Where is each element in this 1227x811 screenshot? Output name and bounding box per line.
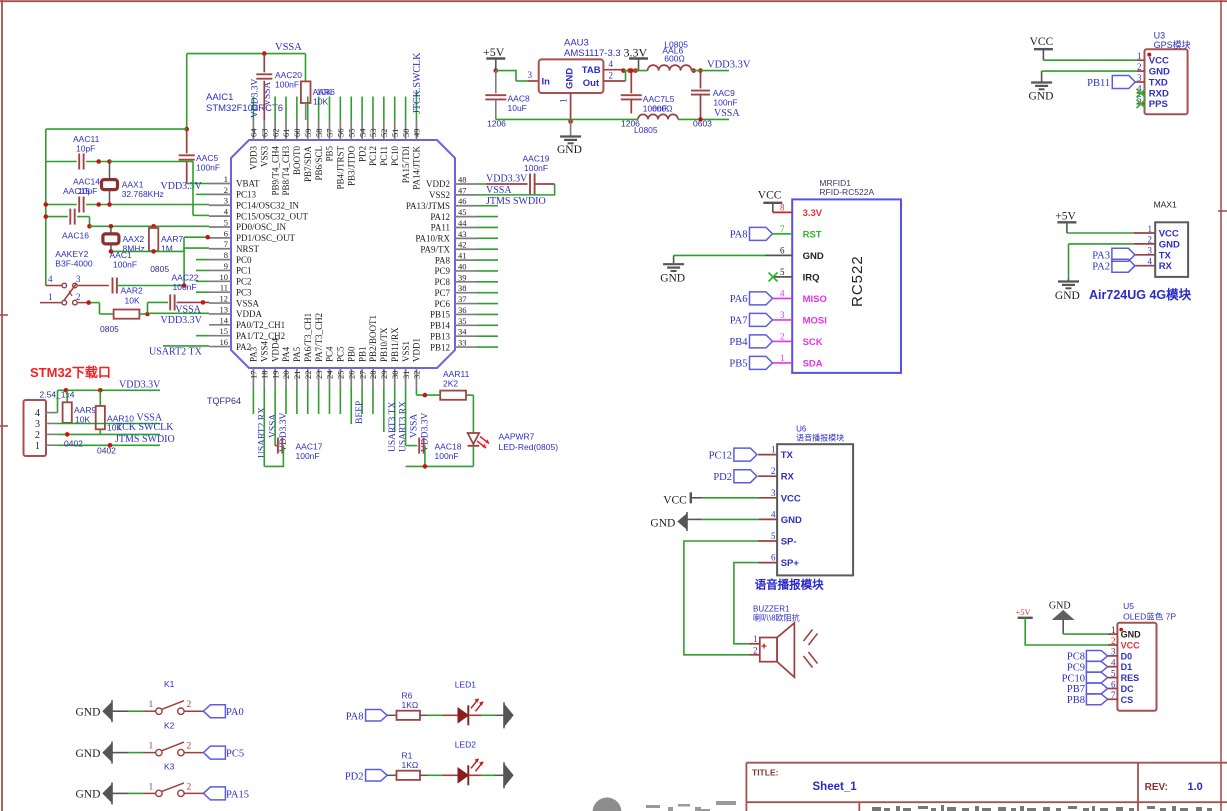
svg-text:GND: GND: [565, 68, 576, 89]
svg-text:50: 50: [401, 129, 411, 138]
svg-text:61: 61: [281, 129, 291, 138]
wire SP- to buzzer pin2: [684, 541, 758, 655]
U6 pin 6 SP+: [758, 562, 777, 564]
MCU pin 7 NRST: [209, 248, 231, 250]
wire VCC to U3 pin1: [1043, 59, 1136, 61]
svg-text:PC5: PC5: [336, 346, 346, 362]
wire pin13 VDDA: [150, 312, 209, 314]
MCU pin 40 PC9: [455, 270, 477, 272]
svg-text:3: 3: [1137, 73, 1142, 83]
svg-text:GND: GND: [76, 789, 101, 801]
MCU pin 6 PD1/OSC_OUT: [209, 237, 231, 239]
MAX1 pin 1 VCC: [1134, 232, 1156, 234]
svg-text:3: 3: [35, 419, 40, 430]
svg-text:GND: GND: [1029, 91, 1054, 103]
svg-text:1: 1: [149, 700, 154, 710]
svg-text:PB5: PB5: [729, 359, 747, 370]
svg-text:VCC: VCC: [758, 190, 782, 202]
svg-text:17: 17: [249, 371, 259, 380]
svg-text:AAC8: AAC8: [508, 94, 530, 104]
MCU pin 39 PC8: [455, 281, 477, 283]
svg-text:VDD1: VDD1: [412, 338, 422, 362]
MCU pin 5 PD0/OSC_IN: [209, 226, 231, 228]
svg-text:2: 2: [187, 782, 192, 792]
wire MAX1 pin2 to GND: [1069, 243, 1134, 245]
svg-text:VDD3: VDD3: [249, 146, 259, 170]
svg-text:PA15: PA15: [226, 789, 249, 800]
svg-text:13: 13: [220, 304, 229, 314]
net flag PC5: [203, 746, 225, 759]
no-connect X IRQ: [769, 273, 778, 282]
svg-text:2: 2: [609, 71, 614, 81]
svg-text:49: 49: [412, 129, 422, 138]
svg-text:VCC: VCC: [1159, 229, 1179, 240]
svg-text:37: 37: [458, 294, 467, 304]
MCU pin 11 PC3: [209, 291, 231, 293]
svg-text:16: 16: [220, 337, 229, 347]
svg-text:PD2: PD2: [357, 146, 367, 162]
svg-text:35: 35: [458, 316, 467, 326]
svg-text:PC4: PC4: [325, 346, 335, 362]
MCU pin 24 PC4: [328, 368, 330, 388]
MCU pin 23 PA7/T3_CH2: [318, 368, 320, 388]
svg-text:VSS2: VSS2: [429, 190, 450, 200]
svg-text:PA10/RX: PA10/RX: [415, 234, 450, 244]
svg-text:53: 53: [368, 129, 378, 138]
MCU pin 45 PA12: [455, 216, 477, 218]
svg-text:喇叭\8欧阻抗: 喇叭\8欧阻抗: [753, 613, 800, 623]
svg-text:PB4/JTRST: PB4/JTRST: [336, 145, 346, 189]
module U6 voice body: [777, 444, 853, 575]
MCU pin 43 PA10/RX: [455, 237, 477, 239]
MCU pin 49 PA14/JTCK: [415, 120, 417, 140]
svg-text:语音播报模块: 语音播报模块: [796, 433, 844, 443]
wire pin46 JTMS: [477, 205, 498, 207]
wire AAC19 to VSSA pin47: [530, 184, 555, 195]
wire GND to K3: [112, 792, 128, 794]
wire pin1 VBAT: [187, 183, 209, 185]
svg-text:4: 4: [1148, 257, 1153, 267]
wire VCC to U6 pin3: [701, 497, 758, 499]
regulator pin1 GND: [570, 93, 572, 119]
svg-text:PB2/BOOT1: PB2/BOOT1: [368, 315, 378, 362]
LED LED1 arrows: [471, 699, 479, 709]
svg-text:PA11: PA11: [431, 223, 450, 233]
MCU pin 58 PB6/SCL: [318, 120, 320, 140]
svg-text:USART2 TX: USART2 TX: [149, 347, 203, 358]
svg-text:GND: GND: [76, 707, 101, 719]
svg-text:JTMS SWDIO: JTMS SWDIO: [115, 434, 175, 445]
U3 pin 2 GND: [1137, 70, 1145, 72]
wire PA7 to RC522: [773, 319, 793, 321]
wire VDD pin32 to AAR11: [415, 388, 417, 395]
svg-text:63: 63: [259, 129, 269, 138]
U3 pin 4 RXD: [1137, 92, 1145, 94]
svg-text:LED1: LED1: [455, 679, 477, 689]
svg-text:PC11: PC11: [379, 146, 389, 166]
svg-text:33: 33: [458, 338, 467, 348]
svg-text:100nF: 100nF: [524, 163, 548, 173]
net flag PA0: [203, 705, 225, 718]
svg-text:600Ω: 600Ω: [652, 104, 673, 114]
svg-text:AAIC1: AAIC1: [206, 92, 233, 103]
svg-text:AAKEY2: AAKEY2: [55, 249, 88, 259]
svg-text:AAC16: AAC16: [62, 231, 89, 241]
svg-text:4: 4: [771, 509, 776, 519]
svg-text:6: 6: [780, 245, 785, 255]
svg-text:AAU3: AAU3: [564, 38, 589, 49]
svg-text:TXD: TXD: [1149, 78, 1168, 89]
MCU pin 51 PC10: [394, 120, 396, 140]
wire VDD rail download: [58, 389, 161, 391]
buzzer sound waves: [804, 630, 813, 642]
MCU pin 28 PB2/BOOT1: [372, 368, 374, 388]
wire P1 pin2 SWDIO: [58, 433, 161, 435]
MCU pin 14 PA0/T2_CH1: [209, 324, 231, 326]
svg-text:VSS4: VSS4: [259, 340, 269, 362]
MCU pin 31 VSS1: [405, 368, 407, 388]
svg-text:30: 30: [390, 371, 400, 380]
RC522 pin5 IRQ stub: [773, 276, 792, 278]
svg-text:TX: TX: [781, 450, 794, 461]
U6 pin 1 TX: [758, 454, 777, 456]
wire pin48 VDD3.3V: [477, 183, 486, 185]
svg-text:PB8/T4_CH3: PB8/T4_CH3: [281, 146, 291, 196]
svg-text:AAC7L5: AAC7L5: [643, 94, 675, 104]
svg-text:1.0: 1.0: [1188, 781, 1203, 793]
svg-text:GND: GND: [1149, 67, 1170, 78]
wire GND to K1: [112, 710, 128, 712]
MCU pin 44 PA11: [455, 226, 477, 228]
MCU pin 17 PA3: [252, 368, 254, 388]
svg-text:PA0: PA0: [226, 707, 244, 718]
wire short stubs pins 2/8/9/10/11/15: [196, 193, 209, 195]
svg-text:GND: GND: [660, 273, 685, 285]
svg-text:PA3: PA3: [1092, 251, 1110, 262]
MCU pin 48 VDD2: [455, 183, 477, 185]
svg-text:GND: GND: [76, 748, 101, 760]
buzzer pin 2: [749, 654, 760, 656]
MCU pin 21 PA5: [296, 368, 298, 388]
svg-text:VDD3.3V: VDD3.3V: [707, 60, 751, 71]
svg-text:27: 27: [357, 371, 367, 380]
MCU pin 55 PB3/JTDO: [350, 120, 352, 140]
wire GND to U5 pin1: [1063, 633, 1108, 635]
svg-text:54: 54: [357, 128, 367, 137]
svg-text:PA14/JTCK: PA14/JTCK: [412, 146, 422, 190]
junction VSSA/AAC20: [262, 51, 267, 56]
MCU pin 9 PC1: [209, 269, 231, 271]
svg-text:LED-Red(0805): LED-Red(0805): [499, 442, 559, 452]
svg-text:22: 22: [303, 371, 313, 380]
MCU pin 42 PA9/TX: [455, 248, 477, 250]
wire bottom loop AAC18/LED: [406, 465, 474, 467]
connector MAX1 body: [1155, 222, 1188, 277]
svg-text:15: 15: [220, 326, 229, 336]
svg-text:45: 45: [458, 207, 467, 217]
svg-text:PB14: PB14: [430, 321, 451, 331]
MCU pin 62 PB9/T4_CH4: [274, 120, 276, 140]
svg-text:R1: R1: [402, 750, 413, 760]
svg-text:PA4: PA4: [281, 346, 291, 362]
svg-text:STM32下载口: STM32下载口: [30, 365, 111, 380]
svg-text:25: 25: [336, 371, 346, 380]
watermark fragments left: [646, 805, 660, 808]
wire P1 pin1 VSSA: [58, 444, 161, 446]
svg-text:3: 3: [780, 310, 785, 320]
MCU pin 46 PA13/JTMS: [455, 205, 477, 207]
LED LED1: [458, 708, 468, 723]
svg-text:41: 41: [458, 251, 467, 261]
svg-text:VSSA: VSSA: [275, 42, 302, 53]
svg-text:PB11: PB11: [1087, 78, 1110, 89]
sheet zone tick left: [0, 314, 8, 316]
LED LED2 arrows: [471, 759, 479, 769]
svg-text:BOOT0: BOOT0: [292, 146, 302, 175]
MCU pin 25 PC5: [339, 368, 341, 388]
MCU pin 41 PA8: [455, 259, 477, 261]
svg-text:VDD2: VDD2: [426, 179, 450, 189]
svg-text:VBAT: VBAT: [236, 179, 260, 189]
svg-text:PB11/RX: PB11/RX: [390, 327, 400, 362]
svg-text:19: 19: [270, 371, 280, 380]
wire +5V to U5 pin2: [1025, 618, 1108, 645]
wire AAR11 to LED: [466, 394, 473, 396]
ground GND MAX1: [1058, 280, 1079, 282]
svg-text:18: 18: [259, 371, 269, 380]
MCU pin 57 PB5: [328, 120, 330, 140]
svg-text:0402: 0402: [97, 446, 116, 456]
wire GND to RC522 pin6: [765, 254, 792, 256]
svg-text:VDD4: VDD4: [270, 338, 280, 362]
resistor AAR10 10K: [99, 390, 101, 406]
svg-text:DC: DC: [1121, 684, 1134, 694]
svg-text:VDD3.3V: VDD3.3V: [486, 174, 528, 185]
svg-text:IRQ: IRQ: [803, 272, 820, 283]
svg-text:NRST: NRST: [236, 244, 260, 254]
svg-text:AAX1: AAX1: [122, 180, 144, 190]
svg-text:PC14/OSC32_IN: PC14/OSC32_IN: [236, 200, 300, 210]
svg-text:52: 52: [379, 129, 389, 138]
svg-text:4: 4: [48, 274, 53, 284]
svg-text:48: 48: [458, 175, 467, 185]
junction 8M bottom: [109, 249, 114, 254]
MCU pin 26 PB0: [350, 368, 352, 388]
capacitor AAC17 100nF: [263, 388, 265, 466]
svg-text:BUZZER1: BUZZER1: [753, 605, 790, 614]
svg-text:VCC: VCC: [1121, 641, 1141, 651]
svg-text:PA2: PA2: [1092, 262, 1110, 273]
U6 pin 3 VCC: [758, 497, 777, 499]
MCU pin 36 PB15: [455, 313, 477, 315]
svg-text:10uF: 10uF: [508, 103, 527, 113]
svg-text:PA8: PA8: [730, 230, 748, 241]
wire AAR2 to pin12 VSSA: [147, 302, 149, 314]
MCU pin 15 PA1/T2_CH2: [209, 335, 231, 337]
svg-text:3: 3: [771, 488, 776, 498]
wire K3 to net: [184, 792, 203, 794]
MCU pin 35 PB14: [455, 324, 477, 326]
svg-text:1: 1: [48, 292, 53, 302]
junction AAC16: [44, 214, 49, 219]
resistor AAR2 10K: [89, 302, 100, 304]
svg-text:U5: U5: [1123, 601, 1134, 611]
svg-text:PB10/TX: PB10/TX: [379, 327, 389, 362]
svg-text:100nF: 100nF: [435, 451, 459, 461]
svg-text:VDDA: VDDA: [236, 309, 262, 319]
MCU pin 52 PC11: [383, 120, 385, 140]
svg-text:40: 40: [458, 261, 467, 271]
MCU pin 16 PA2: [209, 346, 231, 348]
svg-text:AAC18: AAC18: [435, 442, 462, 452]
wire right pins open: [477, 216, 498, 218]
svg-text:32: 32: [412, 371, 422, 380]
wire K2 to net: [184, 752, 203, 754]
MCU pin 38 PC7: [455, 292, 477, 294]
svg-text:1KΩ: 1KΩ: [402, 700, 419, 710]
svg-text:PB7: PB7: [1067, 684, 1085, 695]
svg-text:PA3: PA3: [249, 346, 259, 362]
wire PB5 to RC522: [773, 362, 793, 364]
resistor AAR7 1M: [153, 226, 155, 228]
junction U3 pin1: [1147, 53, 1151, 57]
svg-text:58: 58: [314, 129, 324, 138]
svg-text:PC9: PC9: [434, 266, 450, 276]
svg-text:0805: 0805: [100, 324, 119, 334]
svg-text:3.3V: 3.3V: [803, 208, 823, 219]
svg-text:PA6/T3_CH1: PA6/T3_CH1: [303, 313, 313, 362]
svg-text:1: 1: [149, 742, 154, 752]
svg-text:PA6: PA6: [730, 294, 748, 305]
svg-text:PB1: PB1: [357, 346, 367, 362]
svg-text:VSSA: VSSA: [714, 108, 740, 119]
svg-text:PB3/JTDO: PB3/JTDO: [346, 146, 356, 187]
net VSSA wire top: [187, 53, 306, 55]
svg-text:SP-: SP-: [781, 537, 797, 548]
wire U3 pin2 to GND: [1042, 70, 1137, 72]
title block frame: [746, 762, 1227, 764]
wire LED1 to GND: [468, 714, 482, 716]
wire K1 to net: [184, 710, 203, 712]
svg-text:PB0: PB0: [346, 346, 356, 362]
svg-text:PC6: PC6: [434, 299, 450, 309]
svg-text:8: 8: [224, 250, 228, 260]
svg-text:GND: GND: [650, 518, 675, 530]
wire PD2 to R1: [387, 774, 396, 776]
junction regulator output: [621, 68, 626, 73]
buzzer plus mark: [762, 645, 767, 647]
svg-text:PA7/T3_CH2: PA7/T3_CH2: [314, 313, 324, 362]
U6 pin 5 SP-: [758, 540, 777, 542]
svg-text:1: 1: [1148, 224, 1153, 234]
net flag PA15: [203, 787, 225, 800]
inductor AAL5 in ground rail: [638, 114, 678, 119]
watermark fragments right: [872, 807, 881, 811]
svg-text:CS: CS: [1121, 695, 1134, 705]
resistor R6 1K: [397, 711, 421, 720]
svg-text:AAC11: AAC11: [73, 134, 100, 144]
svg-text:U3: U3: [1154, 31, 1166, 41]
svg-text:2: 2: [35, 430, 40, 441]
MCU pin 59 PB7/SDA: [307, 120, 309, 140]
MCU AAIC1 STM32F103RCT6 body: [231, 140, 455, 368]
MCU pin 27 PB1: [361, 368, 363, 388]
no-connect X U3 pin5: [1137, 100, 1146, 109]
inductor AAL6 600R: [648, 65, 692, 71]
wire output node: [624, 70, 648, 72]
svg-text:PB6/SCL: PB6/SCL: [314, 146, 324, 181]
svg-text:GND: GND: [1121, 630, 1142, 640]
junction VDD3.3V node: [691, 68, 696, 73]
wire +5V to regulator In: [496, 71, 516, 81]
svg-text:31: 31: [401, 371, 411, 380]
U6 pin 4 GND: [758, 518, 777, 520]
wire 32k top to pin4: [110, 161, 194, 163]
svg-text:VSSA: VSSA: [410, 414, 420, 438]
wire +5V to MAX1 pin1: [1067, 232, 1134, 234]
svg-text:TX: TX: [1159, 250, 1172, 261]
svg-text:PA9/TX: PA9/TX: [420, 244, 450, 254]
MCU pin 32 VDD1: [415, 368, 417, 388]
svg-text:21: 21: [292, 371, 302, 380]
svg-text:PC7: PC7: [434, 288, 450, 298]
junction download rail: [64, 388, 69, 393]
svg-text:600Ω: 600Ω: [664, 54, 685, 64]
buzzer BUZZER1 body: [760, 638, 777, 662]
MCU pin 3 PC14/OSC32_IN: [209, 204, 231, 206]
svg-text:10: 10: [220, 272, 229, 282]
svg-text:43: 43: [458, 229, 467, 239]
watermark logo circle: [593, 798, 622, 811]
junction U5 pin1: [1119, 628, 1123, 632]
svg-text:100nF: 100nF: [113, 260, 137, 270]
svg-text:PA8: PA8: [435, 255, 451, 265]
wire top pin stubs: [252, 97, 254, 121]
MCU pin 1 VBAT: [209, 183, 231, 185]
svg-text:PC10: PC10: [390, 146, 400, 167]
svg-text:2: 2: [780, 331, 785, 341]
svg-text:RC522: RC522: [849, 255, 866, 307]
svg-text:语音播报模块: 语音播报模块: [755, 578, 824, 592]
svg-text:1: 1: [224, 174, 228, 184]
svg-text:100nF: 100nF: [173, 282, 197, 292]
svg-text:PC12: PC12: [709, 451, 732, 462]
svg-text:L0805: L0805: [634, 125, 658, 135]
svg-text:AAC20: AAC20: [275, 70, 302, 80]
svg-text:5: 5: [771, 531, 776, 541]
svg-text:AAC14: AAC14: [73, 177, 100, 187]
svg-text:6: 6: [224, 228, 228, 238]
svg-text:100nF: 100nF: [275, 80, 299, 90]
MAX1 pin 2 GND: [1134, 243, 1156, 245]
svg-text:51: 51: [390, 129, 400, 138]
wire NRST to pin7: [183, 248, 185, 285]
regulator pin4 TAB: [603, 69, 623, 71]
svg-text:VCC: VCC: [1030, 36, 1054, 48]
MCU pin 56 PB4/JTRST: [339, 120, 341, 140]
svg-text:RX: RX: [781, 472, 795, 483]
capacitor AAC7/AAL5 overlap: [630, 71, 632, 94]
MCU pin 61 PB8/T4_CH3: [285, 120, 287, 140]
svg-text:PD2: PD2: [713, 472, 732, 483]
svg-text:In: In: [542, 77, 551, 88]
svg-text:3: 3: [76, 274, 81, 284]
capacitor AAC19 100nF: [529, 174, 531, 195]
capacitor AAC5: [186, 129, 188, 153]
svg-text:38: 38: [458, 283, 467, 293]
svg-text:3: 3: [224, 196, 228, 206]
svg-text:GND: GND: [1055, 290, 1080, 302]
